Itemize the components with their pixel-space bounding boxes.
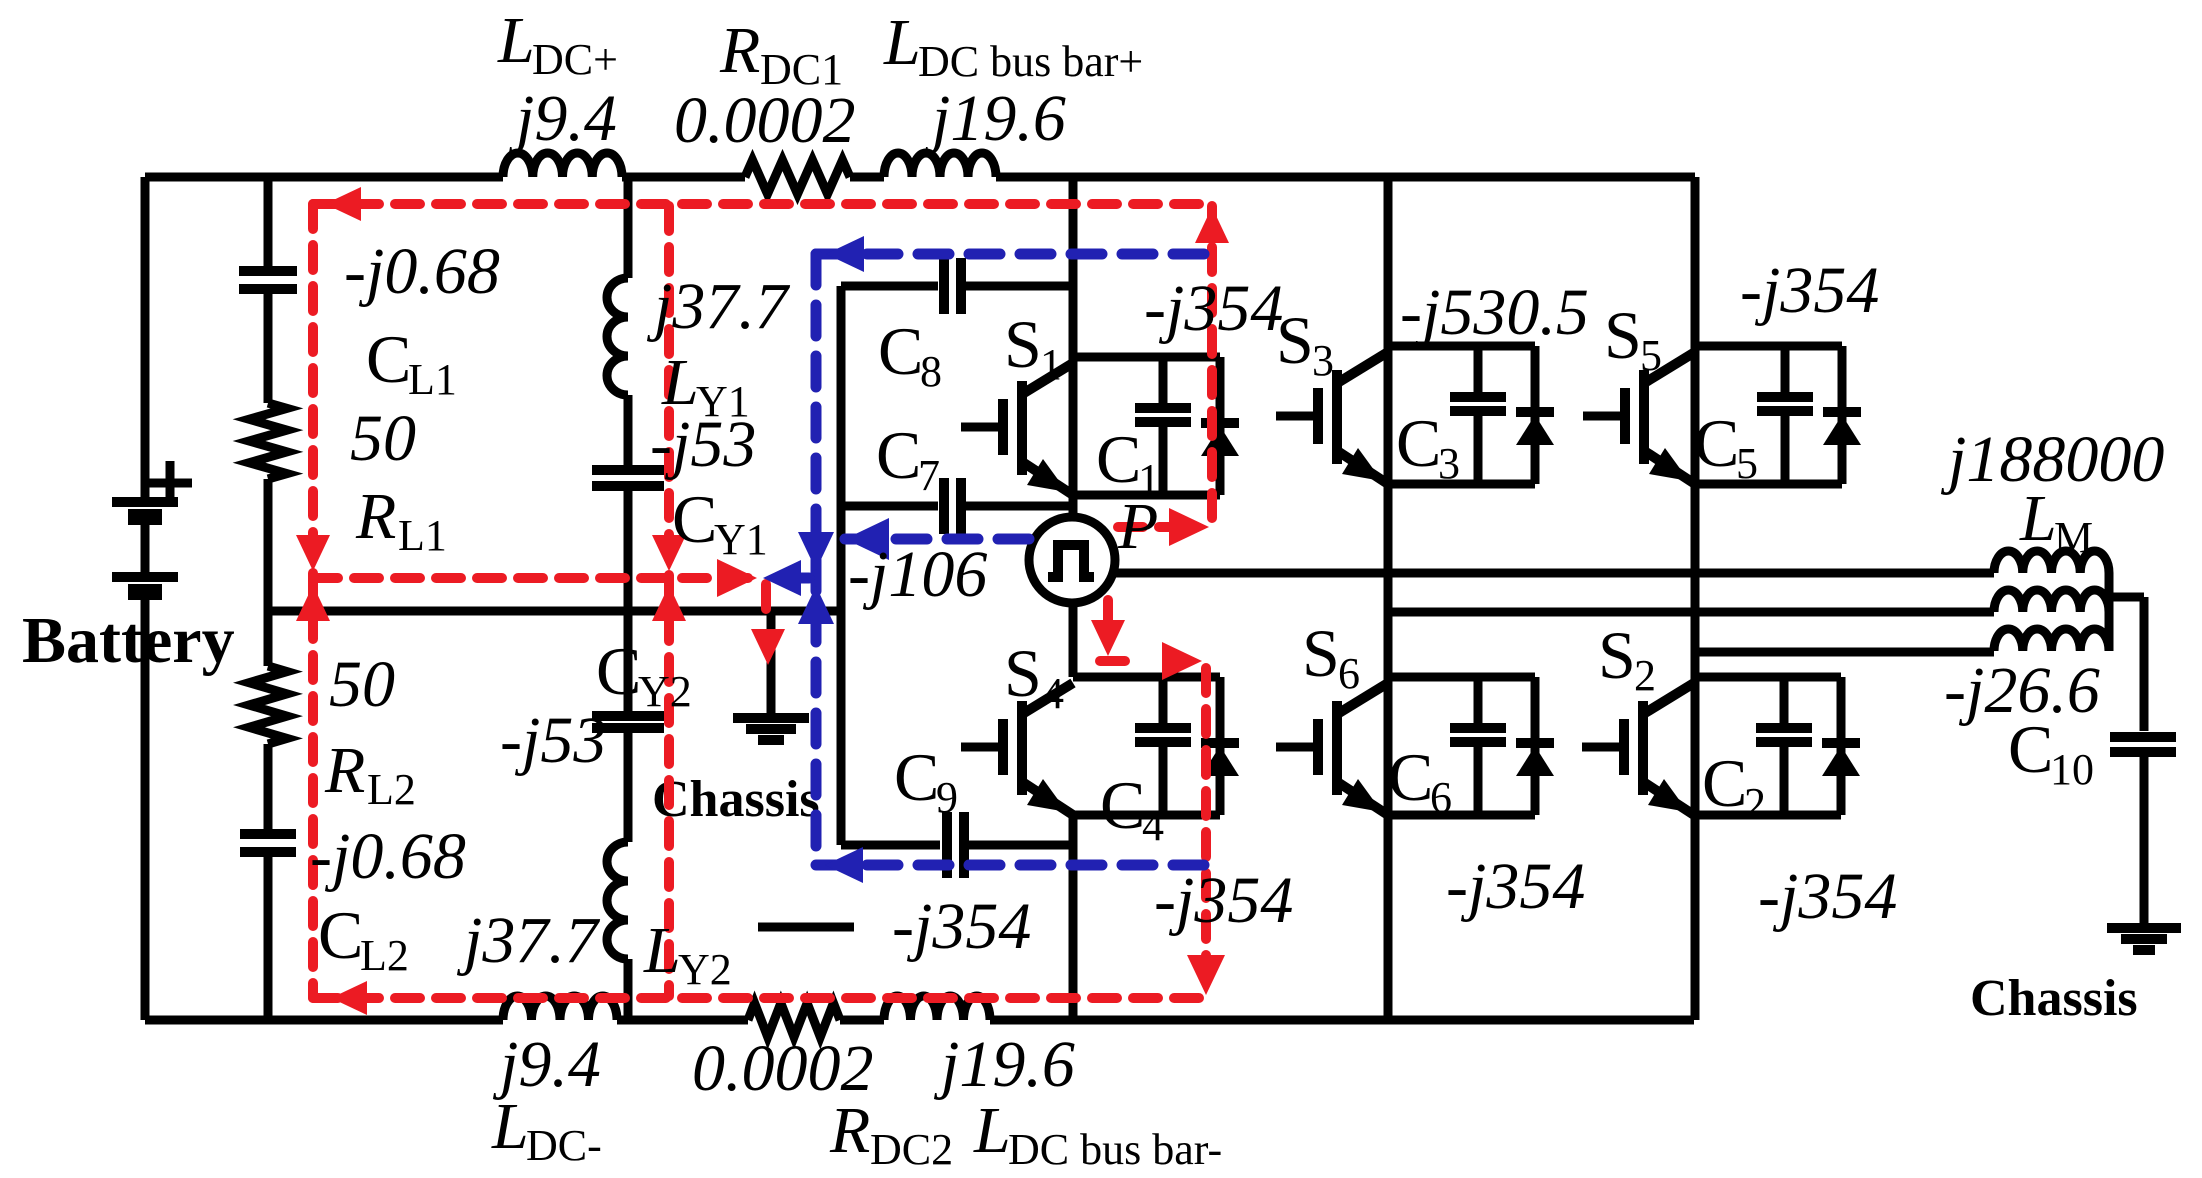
wire phase B output	[1388, 608, 1994, 617]
diode of S4	[1201, 738, 1239, 748]
wire S5 collector/emitter box	[1695, 346, 1842, 484]
svg-text:-j354: -j354	[1758, 860, 1897, 933]
svg-text:1: 1	[1040, 340, 1062, 389]
svg-text:-j53: -j53	[650, 408, 756, 481]
svg-text:Chassis: Chassis	[652, 771, 820, 828]
diode of S1	[1201, 418, 1239, 428]
svg-text:L: L	[643, 914, 681, 987]
svg-text:L1: L1	[398, 511, 447, 560]
resistor RDC2 0.0002	[748, 1003, 840, 1037]
svg-text:C: C	[1100, 767, 1145, 843]
red CM loop left vertical	[308, 204, 318, 998]
svg-text:8: 8	[920, 347, 942, 396]
svg-text:4: 4	[1042, 669, 1064, 718]
wire C7 branch	[841, 502, 1073, 511]
transistor S3 IGBT	[1332, 370, 1342, 464]
svg-text:-j530.5: -j530.5	[1400, 276, 1589, 349]
svg-text:S: S	[1302, 615, 1340, 691]
wire phase A output	[1113, 569, 1994, 578]
inductor LDC bus bar- j19.6	[884, 996, 990, 1020]
svg-text:S: S	[1598, 617, 1636, 693]
red arrowheads	[325, 187, 361, 221]
svg-text:C: C	[318, 897, 363, 973]
svg-text:DC-: DC-	[526, 1121, 602, 1170]
svg-text:R: R	[719, 14, 760, 87]
wire middle rail to chassis	[268, 607, 841, 616]
svg-text:C: C	[596, 633, 641, 709]
capacitor C8 -j354	[939, 258, 949, 314]
svg-text:Y2: Y2	[678, 945, 732, 994]
capacitor C7 -j106	[939, 478, 949, 534]
wire phase C output	[1695, 648, 1994, 657]
svg-text:L: L	[2019, 482, 2057, 555]
wire bottom DC- rail	[145, 1016, 1694, 1025]
pulse source P circle	[1029, 517, 1115, 603]
resistor RL2 50	[249, 666, 287, 744]
line artifact	[758, 923, 854, 932]
blue CM loop top	[816, 249, 1216, 260]
diode of S6	[1516, 738, 1554, 748]
diode of S2	[1822, 738, 1860, 748]
svg-text:DC bus bar-: DC bus bar-	[1008, 1125, 1222, 1174]
wire S2 collector/emitter box	[1694, 677, 1841, 815]
capacitor C10 -j26.6	[2110, 732, 2176, 742]
inductor LM phase B	[1994, 590, 2109, 612]
svg-text:DC bus bar+: DC bus bar+	[918, 37, 1143, 86]
svg-text:-j354: -j354	[1154, 864, 1293, 937]
transistor S4 IGBT	[1017, 701, 1027, 795]
capacitor C9 -j354	[942, 812, 952, 878]
battery B1 left vertical wires	[141, 177, 150, 1020]
wire branch RL1/CL1 vertical	[264, 177, 273, 1020]
red vertical via S4 diode	[1201, 668, 1211, 990]
capacitor CL2 -j0.68	[240, 829, 296, 839]
svg-text:DC2: DC2	[870, 1125, 953, 1174]
svg-text:L: L	[883, 6, 921, 79]
wire S1 collector/emitter box	[1073, 357, 1220, 495]
inductor LM phase C	[1994, 629, 2109, 651]
wire S6 collector/emitter box	[1388, 677, 1535, 815]
wire S4 collector/emitter box	[1073, 677, 1220, 815]
svg-text:L: L	[491, 1090, 529, 1163]
capacitor CY2 -j53	[592, 711, 664, 721]
svg-text:C: C	[1702, 745, 1747, 821]
svg-text:-j354: -j354	[1740, 254, 1879, 327]
inductor LY2 j37.7	[607, 842, 628, 959]
svg-text:3: 3	[1312, 336, 1334, 385]
capacitor C6	[1474, 677, 1483, 815]
capacitor C1	[1159, 357, 1168, 495]
wire C7 C8 C9 box left edge	[837, 286, 846, 845]
svg-text:L2: L2	[367, 765, 416, 814]
blue stub at chassis junction	[778, 573, 816, 584]
svg-text:Y2: Y2	[638, 667, 692, 716]
transistor S1 IGBT	[1017, 381, 1027, 475]
wire phase leg A upper	[1069, 177, 1078, 517]
svg-text:C: C	[1396, 405, 1441, 481]
wire LM neutral	[2109, 573, 2144, 924]
red CM loop right vertical via S1 diode	[1207, 206, 1217, 527]
svg-text:j37.7: j37.7	[456, 904, 601, 977]
svg-text:S: S	[1004, 635, 1042, 711]
svg-text:5: 5	[1640, 331, 1662, 380]
inductor LY1 j37.7	[607, 278, 628, 395]
diode of S5	[1823, 407, 1861, 417]
wire C9 branch	[841, 841, 1073, 850]
resistor RDC1 0.0002	[745, 160, 850, 194]
svg-text:6: 6	[1338, 649, 1360, 698]
inductor LDC- j9.4	[503, 996, 617, 1020]
blue arrowheads	[826, 236, 864, 272]
red CM loop bottom	[313, 993, 1206, 1003]
wire phase leg B S3/S6	[1384, 177, 1393, 1020]
red CM loop middle horizontal	[313, 573, 750, 583]
svg-text:2: 2	[1744, 779, 1766, 828]
wire phase leg A lower	[1069, 603, 1078, 1020]
svg-text:S: S	[1604, 297, 1642, 373]
inductor LDC+ j9.4	[503, 153, 622, 177]
svg-text:j9.4: j9.4	[508, 82, 617, 155]
red segment at P node	[1118, 522, 1200, 532]
capacitor C2	[1780, 677, 1789, 815]
svg-text:M: M	[2054, 513, 2093, 562]
blue CM loop left vertical	[811, 254, 822, 865]
svg-text:C: C	[894, 739, 939, 815]
svg-text:C: C	[878, 313, 923, 389]
capacitor C4	[1159, 677, 1168, 815]
wire S3 collector/emitter box	[1388, 346, 1535, 484]
blue segment C7 to P	[845, 534, 1030, 545]
svg-text:9: 9	[936, 773, 958, 822]
svg-text:S: S	[1004, 306, 1042, 382]
ground chassis right	[2107, 923, 2181, 933]
inductor LM phase A j188000	[1994, 551, 2109, 573]
wire phase leg C S5/S2	[1691, 177, 1700, 1020]
transistor S6 IGBT	[1332, 701, 1342, 795]
battery plus sign	[148, 461, 192, 505]
svg-text:-j354: -j354	[1446, 850, 1585, 923]
svg-text:-j0.68: -j0.68	[344, 235, 500, 308]
capacitor C3	[1474, 346, 1483, 484]
svg-text:3: 3	[1438, 439, 1460, 488]
svg-text:R: R	[829, 1094, 870, 1167]
transistor S2 IGBT	[1638, 701, 1648, 795]
svg-text:5: 5	[1736, 439, 1758, 488]
pulse source P symbol	[1048, 545, 1094, 577]
svg-text:50: 50	[350, 402, 416, 475]
svg-text:j19.6: j19.6	[933, 1028, 1075, 1101]
svg-text:0.0002: 0.0002	[674, 84, 856, 157]
svg-text:-j53: -j53	[500, 704, 606, 777]
capacitor C5	[1781, 346, 1790, 484]
svg-text:-j106: -j106	[848, 538, 987, 611]
svg-text:L: L	[497, 4, 535, 77]
blue CM loop bottom	[816, 860, 1205, 871]
diode of S3	[1516, 407, 1554, 417]
svg-text:-j0.68: -j0.68	[310, 820, 466, 893]
svg-text:R: R	[355, 480, 396, 553]
svg-text:P: P	[1117, 490, 1158, 563]
red path below pulse source	[1103, 600, 1113, 632]
ground chassis left	[733, 713, 809, 723]
svg-text:L: L	[973, 1094, 1011, 1167]
capacitor CY1 -j53	[592, 465, 664, 475]
wire top DC+ rail	[145, 173, 1695, 182]
svg-text:DC+: DC+	[532, 35, 618, 84]
svg-text:L2: L2	[360, 931, 409, 980]
wire CY branch vertical	[624, 177, 633, 1020]
transistor S5 IGBT	[1639, 370, 1649, 464]
svg-text:2: 2	[1634, 651, 1656, 700]
svg-text:C: C	[1096, 421, 1141, 497]
svg-text:C: C	[672, 481, 717, 557]
svg-text:C: C	[876, 417, 921, 493]
svg-text:C: C	[1388, 739, 1433, 815]
svg-text:50: 50	[329, 648, 395, 721]
svg-text:C: C	[366, 321, 411, 397]
svg-text:-j354: -j354	[892, 890, 1031, 963]
svg-text:Battery: Battery	[22, 604, 235, 677]
svg-text:C: C	[2008, 711, 2053, 787]
svg-text:10: 10	[2050, 745, 2094, 794]
svg-text:Y1: Y1	[714, 515, 768, 564]
red CM loop CY vertical	[664, 206, 674, 996]
resistor RL1 50	[249, 403, 287, 479]
wire C8 branch	[841, 282, 1073, 291]
inductor LDC bus bar+ j19.6	[884, 153, 996, 177]
svg-text:-j354: -j354	[1144, 272, 1283, 345]
battery B1 plates	[112, 497, 178, 507]
svg-text:4: 4	[1142, 801, 1164, 850]
wire chassis stub	[767, 611, 776, 714]
svg-text:6: 6	[1430, 773, 1452, 822]
svg-text:L1: L1	[408, 355, 457, 404]
svg-text:7: 7	[918, 451, 940, 500]
svg-text:C: C	[1694, 405, 1739, 481]
svg-text:Chassis: Chassis	[1970, 970, 2138, 1027]
red chassis drop	[761, 584, 771, 622]
svg-text:j19.6: j19.6	[924, 82, 1066, 155]
red CM current loop top	[313, 199, 1212, 209]
svg-text:j37.7: j37.7	[646, 270, 791, 343]
svg-text:S: S	[1276, 302, 1314, 378]
capacitor CL1 -j0.68	[239, 266, 297, 276]
svg-text:R: R	[324, 734, 365, 807]
